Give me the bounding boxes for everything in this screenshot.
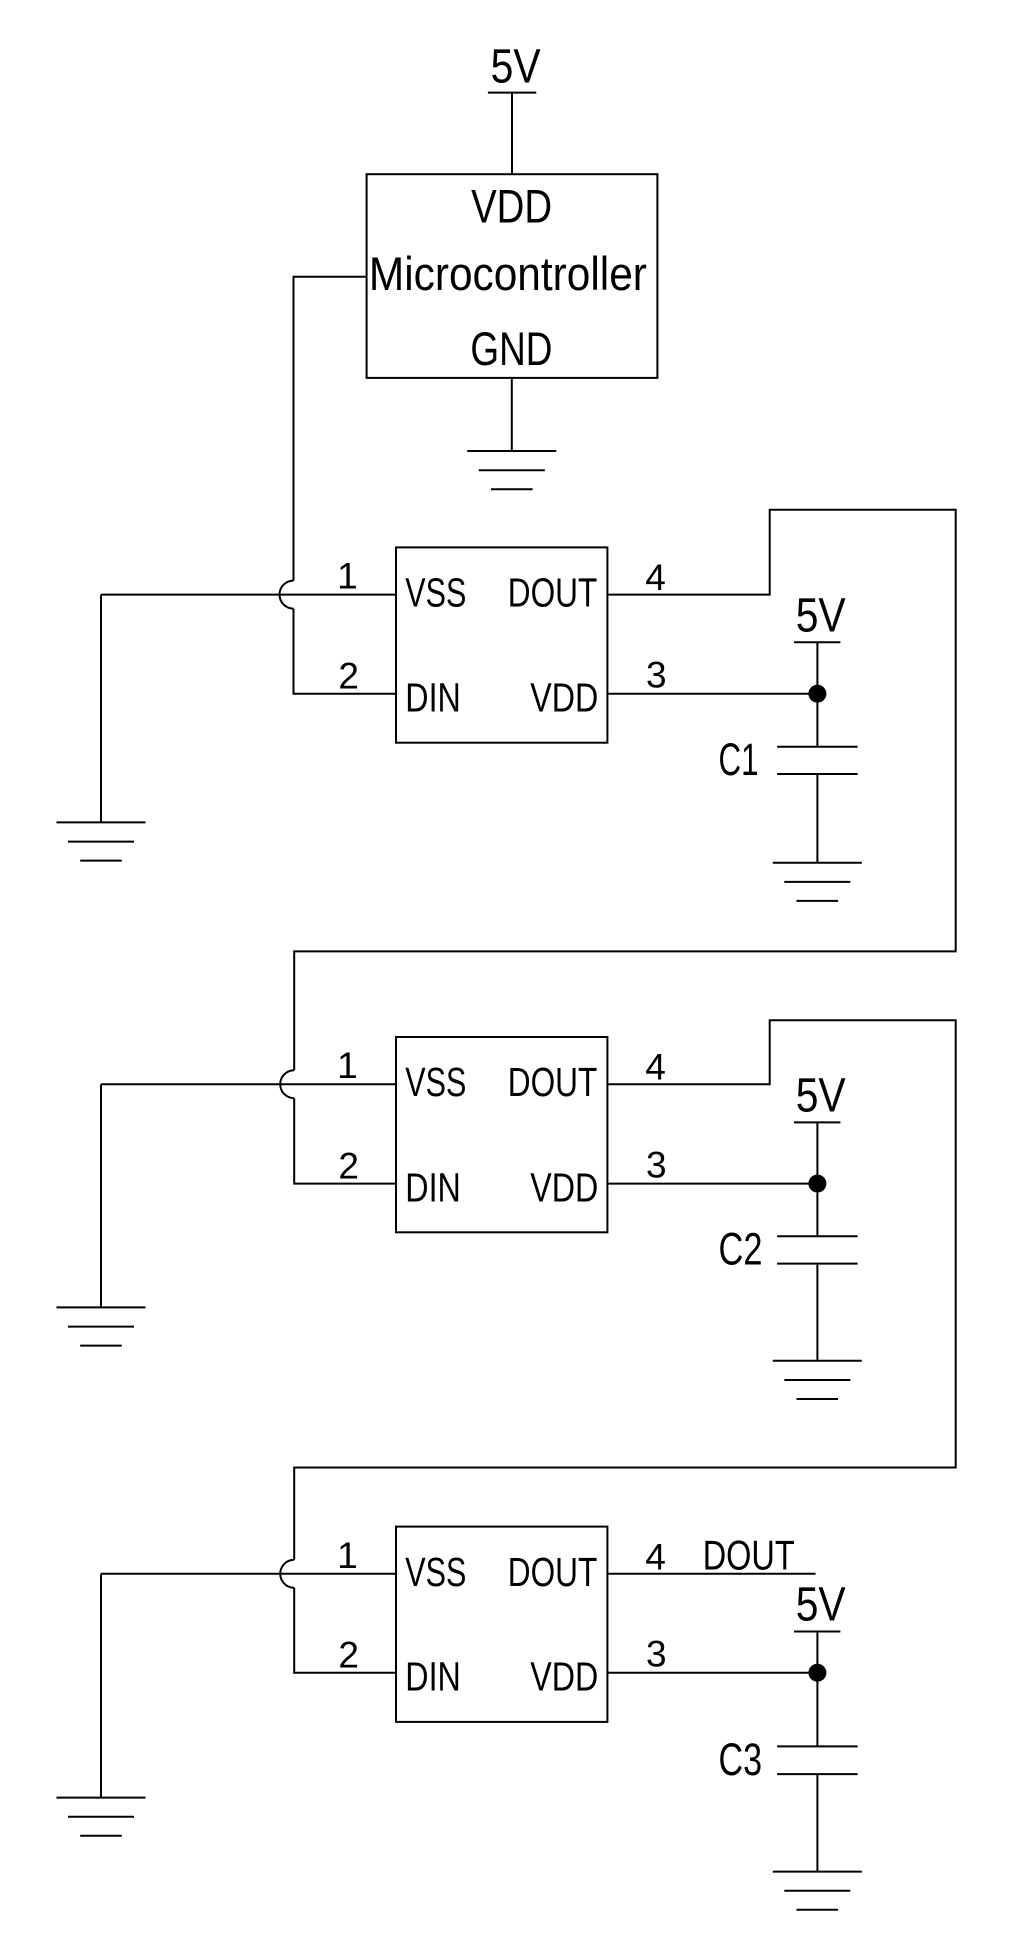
svg-text:Microcontroller: Microcontroller xyxy=(369,247,647,300)
wire U4 DOUT output xyxy=(607,1573,815,1575)
svg-text:2: 2 xyxy=(338,656,359,697)
capacitor C3 xyxy=(719,1734,858,1785)
svg-text:DIN: DIN xyxy=(405,675,461,721)
ground (C2) xyxy=(773,1361,862,1399)
ground (microcontroller) xyxy=(467,451,556,489)
wire U4 VSS to ground xyxy=(101,1573,396,1575)
svg-text:VDD: VDD xyxy=(530,1654,598,1700)
svg-text:DOUT: DOUT xyxy=(508,1059,598,1105)
junction node U4 VDD / 5V / C3 xyxy=(808,1664,826,1682)
svg-text:5V: 5V xyxy=(491,40,541,93)
svg-text:5V: 5V xyxy=(796,1579,846,1632)
svg-text:GND: GND xyxy=(470,322,552,375)
svg-text:VSS: VSS xyxy=(405,1059,466,1105)
wire U3 VSS to ground xyxy=(101,1083,396,1085)
capacitor C1 xyxy=(719,734,858,785)
svg-text:3: 3 xyxy=(646,655,667,696)
wire 5V to VDD node xyxy=(816,1122,818,1183)
junction node U2 VDD / 5V / C1 xyxy=(808,685,826,703)
svg-text:5V: 5V xyxy=(796,589,846,642)
wire node to C3 xyxy=(816,1673,818,1747)
svg-text:DOUT: DOUT xyxy=(508,1549,598,1595)
wire C3 to ground xyxy=(816,1774,818,1872)
ground (U2 VSS) xyxy=(57,822,146,860)
svg-text:4: 4 xyxy=(645,1536,666,1577)
power supply 5V (top) xyxy=(488,40,541,93)
ground (U4 VSS) xyxy=(57,1798,146,1836)
svg-text:5V: 5V xyxy=(796,1069,846,1122)
power supply 5V (U4) xyxy=(794,1579,846,1632)
wire C2 to ground xyxy=(816,1264,818,1361)
wire microcontroller data out to U2 DIN (with hop over VSS wire) xyxy=(294,277,367,581)
wire node to C2 xyxy=(816,1184,818,1237)
wire into U4 DIN xyxy=(294,1588,396,1673)
svg-text:1: 1 xyxy=(337,1535,358,1576)
LED driver chip U2 xyxy=(396,547,607,742)
ground (C3) xyxy=(773,1872,862,1910)
svg-text:VDD: VDD xyxy=(530,675,598,721)
wire into U3 DIN xyxy=(294,1098,396,1183)
wire 5V to VDD node xyxy=(816,642,818,693)
svg-text:1: 1 xyxy=(337,1045,358,1086)
capacitor C2 xyxy=(719,1223,858,1274)
wire U4 VDD to 5V node xyxy=(607,1672,817,1674)
power supply 5V (U2) xyxy=(794,589,846,642)
ground (C1) xyxy=(773,863,862,901)
wire hop over U4 VSS wire xyxy=(280,1560,294,1588)
wire U3 VDD to 5V node xyxy=(607,1183,817,1185)
svg-text:2: 2 xyxy=(338,1146,359,1187)
ground (U3 VSS) xyxy=(57,1307,146,1345)
svg-text:2: 2 xyxy=(338,1635,359,1676)
microcontroller U1 xyxy=(367,174,658,378)
junction node U3 VDD / 5V / C2 xyxy=(808,1175,826,1193)
power supply 5V (U3) xyxy=(794,1069,846,1122)
svg-text:3: 3 xyxy=(646,1634,667,1675)
svg-text:1: 1 xyxy=(337,556,358,597)
wire hop over U3 VSS wire xyxy=(280,1070,294,1098)
LED driver chip U3 xyxy=(396,1037,607,1232)
svg-text:C2: C2 xyxy=(719,1223,763,1274)
svg-text:DOUT: DOUT xyxy=(703,1531,795,1578)
wire U2 DOUT to U3 DIN (chain jog with hop) xyxy=(294,510,956,1070)
wire C1 to ground xyxy=(816,774,818,863)
wire U2 VSS to ground xyxy=(101,594,396,596)
wire 5V to microcontroller VDD xyxy=(511,93,513,175)
svg-text:4: 4 xyxy=(645,1047,666,1088)
wire microcontroller GND xyxy=(511,378,513,451)
svg-text:VDD: VDD xyxy=(471,180,552,233)
wire 5V to VDD node xyxy=(816,1632,818,1673)
wire U2 VDD to 5V node xyxy=(607,693,817,695)
svg-text:DIN: DIN xyxy=(405,1165,461,1211)
svg-text:VDD: VDD xyxy=(530,1165,598,1211)
wire U3 DOUT to U4 DIN (chain jog with hop) xyxy=(294,1020,956,1560)
svg-text:3: 3 xyxy=(646,1145,667,1186)
svg-text:C3: C3 xyxy=(719,1734,763,1785)
svg-text:VSS: VSS xyxy=(405,1549,466,1595)
svg-text:4: 4 xyxy=(645,557,666,598)
svg-text:C1: C1 xyxy=(719,734,759,785)
svg-text:DOUT: DOUT xyxy=(508,570,598,616)
wire node to C1 xyxy=(816,694,818,747)
LED driver chip U4 xyxy=(396,1527,607,1722)
svg-text:VSS: VSS xyxy=(405,570,466,616)
svg-text:DIN: DIN xyxy=(405,1654,461,1700)
